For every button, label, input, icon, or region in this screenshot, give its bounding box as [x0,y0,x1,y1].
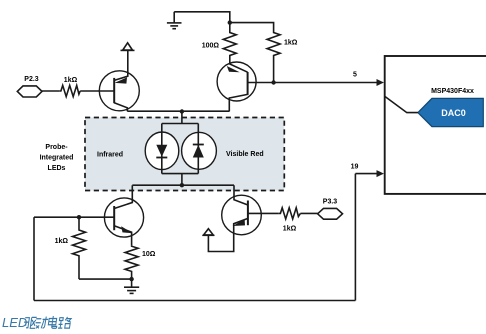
wire DAC0 to pin [385,97,418,113]
transistor Q1 [99,71,139,111]
wire Q4 base [248,212,279,214]
wire LED bottom rail [162,173,199,175]
svg-text:LEDs: LEDs [48,165,66,172]
svg-text:Infrared: Infrared [97,152,123,159]
node LED bottom feed [180,183,184,187]
svg-text:Visible Red: Visible Red [226,151,264,158]
svg-text:5: 5 [353,72,357,79]
resistor R2 [223,30,236,62]
svg-text:MSP430F4xx: MSP430F4xx [431,88,474,95]
wire Q3 collector to Q4 collector [132,184,234,186]
caption hanzi dong (move) [35,317,49,329]
node junction R3/base [271,80,275,84]
svg-text:1kΩ: 1kΩ [55,238,69,245]
wire R1 to Q1 base [80,90,114,92]
resistor R5 [125,246,138,279]
node Q3 base/R4 [77,215,81,219]
node LED top feed [180,109,184,113]
supply arrow bottom [202,229,214,236]
resistor R1 [59,85,80,96]
wire R4 to R5 bottom [79,278,132,280]
wire branch to R3 [230,23,274,30]
ground top [167,12,182,29]
wire LED top rail [162,123,199,125]
pin 5 arrowhead [377,79,385,86]
svg-text:Probe-: Probe- [45,144,68,151]
wire right riser to pin 19 [354,174,356,301]
wire feed into LED box [181,112,183,124]
DAC0 block [418,98,483,126]
svg-text:19: 19 [351,164,359,171]
wire top rail [174,12,230,30]
svg-text:P3.3: P3.3 [323,199,338,206]
wire Q3 base [34,216,114,218]
svg-text:Integrated: Integrated [40,155,74,162]
transistor Q2 [217,62,256,111]
svg-text:10Ω: 10Ω [142,251,156,258]
resistor R3 [267,30,280,62]
MSP430 box [385,56,486,194]
wire Q1 collector to Q2 collector [127,110,229,112]
svg-text:1kΩ: 1kΩ [284,40,298,47]
wire bottom rail [34,300,355,302]
resistor R4 [73,217,86,279]
port flag P3.3 [318,208,343,219]
wire Q2 base to pin 5 [248,82,377,84]
node ground junction [129,277,133,281]
wire pin 19 [355,173,377,175]
wire R6 to flag [300,212,317,214]
LED D2 visible red [182,124,217,174]
svg-text:LED: LED [2,315,27,330]
svg-text:1kΩ: 1kΩ [283,226,297,233]
probe box label [40,144,74,172]
svg-text:100Ω: 100Ω [202,43,220,50]
LED D1 infrared [145,124,179,174]
wire left loop to bottom rail [33,217,35,300]
probe LED dashed box [85,118,284,191]
svg-text:1kΩ: 1kΩ [64,77,78,84]
node junction top [228,20,232,24]
ground bottom [124,279,139,293]
wire R3 to node [273,62,275,83]
pin 19 arrowhead [377,170,385,177]
svg-text:DAC0: DAC0 [441,108,466,118]
resistor R6 [279,208,301,219]
caption hanzi lu (circuit/road) [58,317,72,328]
wire LED bottom feed [181,174,183,186]
svg-text:P2.3: P2.3 [24,76,39,83]
caption hanzi qu (drive) [23,317,37,328]
caption hanzi dian (electric) [48,316,58,328]
wire flag to R1 [42,90,59,92]
supply arrow top [121,43,135,75]
port flag P2.3 [17,86,42,97]
transistor Q3 [104,185,143,246]
transistor Q4 [208,185,261,251]
